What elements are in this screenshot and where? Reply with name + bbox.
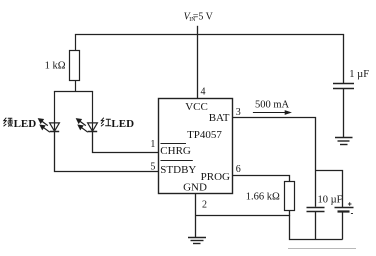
wire D2 cathode to pin 1 <box>93 132 159 153</box>
IC U1 TP4057 box <box>159 99 233 194</box>
wire pin 3 BAT net <box>233 118 316 207</box>
label BAT <box>209 112 230 124</box>
node VIN label <box>184 12 214 24</box>
svg-text:CHRG: CHRG <box>160 145 191 157</box>
label red LED <box>101 118 134 130</box>
label 1.66 kOhm <box>246 192 280 203</box>
svg-text:1 µF: 1 µF <box>349 69 369 80</box>
wire BAT branch to battery <box>316 171 343 208</box>
label CHRG with overline <box>160 144 191 158</box>
svg-text:5: 5 <box>150 162 155 173</box>
svg-text:1: 1 <box>150 139 155 150</box>
label 1 uF <box>349 69 369 80</box>
svg-text:TP4057: TP4057 <box>187 129 222 141</box>
svg-text:STDBY: STDBY <box>160 164 196 176</box>
svg-text:500 mA: 500 mA <box>255 100 290 111</box>
svg-text:3: 3 <box>236 107 241 118</box>
svg-text:10 µF: 10 µF <box>318 194 343 205</box>
battery BT1 <box>335 208 354 240</box>
label PROG <box>201 171 230 183</box>
svg-text:LED: LED <box>111 118 134 130</box>
pin 6 number <box>236 164 241 175</box>
label 10 uF <box>318 194 343 205</box>
svg-text:1.66 kΩ: 1.66 kΩ <box>246 192 280 203</box>
wire LED branch rail <box>54 91 93 93</box>
svg-text:6: 6 <box>236 164 241 175</box>
label 1 kOhm <box>45 61 66 72</box>
svg-text:GND: GND <box>183 182 207 194</box>
pin 4 number <box>201 87 206 98</box>
wire top rail VIN <box>75 34 344 36</box>
wire VIN node stub to pin 4 <box>197 26 199 99</box>
battery polarity marks <box>348 202 353 213</box>
LED D1 green <box>50 92 60 132</box>
svg-text:4: 4 <box>201 87 206 98</box>
svg-text:1 kΩ: 1 kΩ <box>45 61 66 72</box>
ground under pin 2 <box>188 238 206 244</box>
label STDBY with overline <box>160 161 196 177</box>
wire D1 cathode to pin 5 <box>55 132 159 172</box>
svg-text:V: V <box>206 12 214 23</box>
label 500 mA with arrow <box>253 100 292 115</box>
resistor R1 1 kOhm <box>70 35 80 93</box>
scan artifact line <box>288 248 356 250</box>
pin 5 number <box>150 162 155 173</box>
wire bottom rail battery return <box>290 216 343 240</box>
wire pin 2 GND net <box>196 194 291 238</box>
label VCC <box>185 101 208 113</box>
svg-text:2: 2 <box>202 200 207 211</box>
label TP4057 <box>187 129 222 141</box>
resistor R2 1.66 kOhm <box>233 176 295 216</box>
capacitor C2 10 uF <box>307 208 325 240</box>
pin 2 number <box>202 200 207 211</box>
capacitor C1 1 uF <box>333 35 354 138</box>
LED D2 arrows <box>77 119 88 132</box>
svg-text:LED: LED <box>14 118 37 130</box>
pin 1 number <box>150 139 155 150</box>
LED D1 arrows <box>39 119 50 132</box>
svg-text:BAT: BAT <box>209 112 230 124</box>
LED D2 red <box>88 92 98 132</box>
svg-text:VCC: VCC <box>185 101 208 113</box>
ground under C1 <box>335 138 353 145</box>
pin 3 number <box>236 107 241 118</box>
label green LED <box>4 118 37 130</box>
label GND <box>183 182 207 194</box>
svg-text:=5: =5 <box>193 12 204 23</box>
